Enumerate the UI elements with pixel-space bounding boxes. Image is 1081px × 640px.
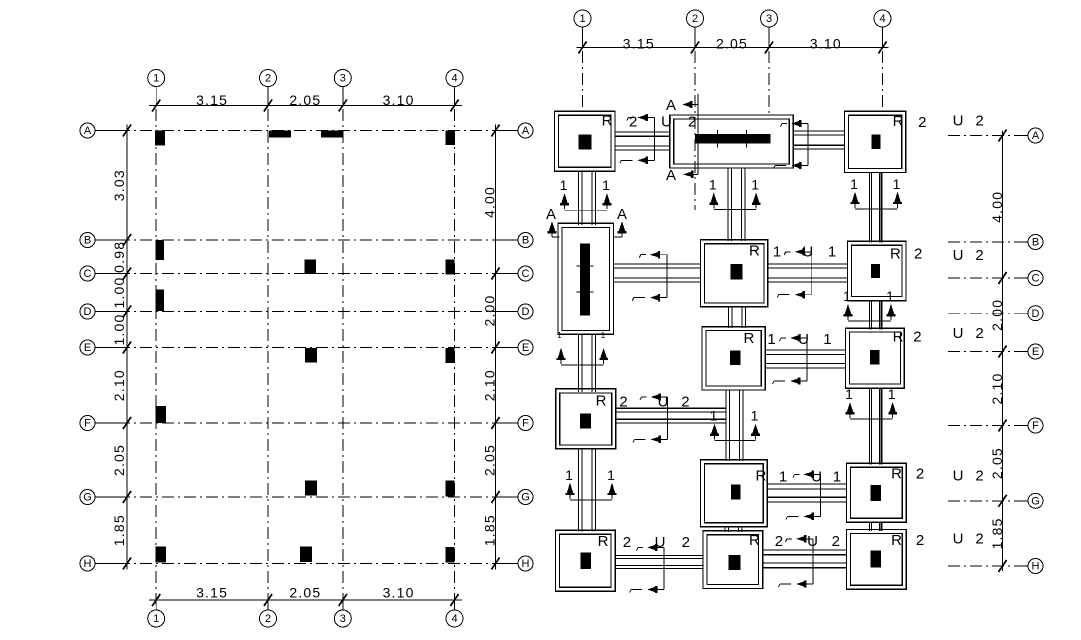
svg-text:A: A — [666, 97, 676, 114]
left plan horizontal grid lines A-H (dash-dot) — [96, 130, 518, 132]
svg-text:2.10: 2.10 — [989, 372, 1005, 404]
svg-text:2.10: 2.10 — [111, 369, 127, 401]
column in F2G — [731, 485, 740, 500]
svg-text:1: 1 — [557, 331, 562, 340]
footing F1BD — [558, 223, 613, 334]
left plan top dimension line — [149, 105, 462, 107]
section 1-1 cut marks on beam — [667, 397, 669, 439]
footing F4H — [847, 530, 907, 590]
tie beam F1BD-F2B row B — [613, 263, 700, 265]
svg-text:A: A — [617, 206, 627, 223]
svg-text:1.85: 1.85 — [482, 514, 498, 546]
svg-text:3.15: 3.15 — [196, 92, 228, 108]
svg-text:2: 2 — [619, 394, 627, 411]
svg-text:3.10: 3.10 — [383, 92, 415, 108]
section 1-1 cut marks on beam — [811, 252, 813, 295]
svg-text:A: A — [84, 125, 92, 137]
svg-text:2: 2 — [975, 325, 983, 342]
svg-text:2: 2 — [265, 613, 271, 625]
column A/3 — [321, 130, 342, 137]
svg-text:U: U — [953, 247, 964, 264]
left plan vertical grid lines 1-4 (dash-dot) — [155, 109, 157, 609]
svg-text:3: 3 — [340, 73, 346, 85]
svg-text:C: C — [522, 268, 530, 280]
svg-text:2: 2 — [832, 533, 840, 550]
svg-text:4: 4 — [451, 73, 457, 85]
tie beam F2B-F4B row B — [768, 263, 848, 265]
footing F4DE — [846, 328, 905, 388]
section 1-1 cut marks on beam — [561, 364, 604, 366]
column in F4A — [872, 135, 881, 150]
svg-text:3.15: 3.15 — [196, 585, 228, 601]
right plan grid bubbles A-H right axis — [948, 135, 1021, 137]
column in F4B — [871, 264, 880, 278]
wall column in FwA — [695, 134, 770, 144]
right plan top dimension line — [577, 47, 889, 49]
svg-text:1: 1 — [893, 176, 901, 192]
tie beam F4DE-F4G — [868, 388, 870, 464]
svg-text:G: G — [83, 492, 92, 504]
svg-text:G: G — [1031, 496, 1040, 508]
tie beam F1F-F1H — [578, 449, 580, 532]
svg-text:D: D — [1032, 308, 1040, 320]
svg-text:4.00: 4.00 — [989, 191, 1005, 223]
svg-text:E: E — [1032, 346, 1039, 358]
svg-text:2: 2 — [975, 468, 983, 485]
svg-text:1: 1 — [828, 244, 836, 261]
column G/4 — [446, 481, 455, 497]
section 1-1 cut marks on beam — [570, 499, 612, 501]
footing F2DE — [702, 327, 765, 390]
svg-text:2: 2 — [623, 534, 631, 551]
footing F2G — [701, 460, 768, 527]
section 1-1 cut marks on beam — [714, 208, 756, 210]
column D/1 — [156, 290, 165, 312]
svg-text:E: E — [84, 342, 91, 354]
section 1-1 cut marks on beam — [806, 338, 808, 381]
footing F1A — [555, 111, 616, 171]
svg-text:1: 1 — [823, 331, 831, 348]
svg-text:2: 2 — [681, 394, 689, 411]
column H/mid — [300, 547, 312, 563]
svg-text:2: 2 — [918, 114, 926, 131]
right plan grid centerlines (dash-dot) — [582, 51, 584, 111]
column A/4 — [446, 130, 456, 145]
svg-text:1.00: 1.00 — [111, 276, 127, 308]
svg-text:3.10: 3.10 — [810, 36, 842, 52]
svg-text:1.00: 1.00 — [111, 313, 127, 345]
svg-text:1: 1 — [579, 13, 585, 25]
svg-text:2: 2 — [913, 329, 921, 346]
section 1-1 cut marks on beam — [807, 124, 809, 166]
tie beam F4G-F4H — [868, 522, 870, 531]
svg-text:1: 1 — [779, 469, 787, 486]
svg-text:4: 4 — [451, 613, 457, 625]
tie beam F4A-F4B — [868, 173, 870, 243]
section 1-1 cut marks on beam — [663, 548, 665, 590]
svg-text:1: 1 — [888, 386, 896, 402]
svg-text:1: 1 — [607, 467, 615, 483]
svg-text:2: 2 — [975, 531, 983, 548]
svg-text:A: A — [522, 125, 530, 137]
svg-text:2: 2 — [688, 114, 696, 131]
section 1-1 cut marks on beam — [812, 539, 814, 584]
svg-text:2: 2 — [914, 246, 922, 263]
svg-text:2.05: 2.05 — [289, 92, 321, 108]
svg-text:R: R — [891, 466, 902, 483]
tie beam F1A-FwA row A — [615, 131, 670, 133]
svg-text:R: R — [743, 330, 754, 347]
svg-text:2: 2 — [629, 114, 637, 131]
column A/2 — [269, 130, 291, 137]
svg-text:R: R — [893, 113, 904, 130]
section 1-1 cut marks on beam — [848, 320, 891, 322]
svg-text:3: 3 — [766, 13, 772, 25]
left plan grid bubbles 1-4 bottom — [155, 600, 157, 610]
svg-text:1: 1 — [153, 73, 159, 85]
svg-text:2.05: 2.05 — [989, 447, 1005, 479]
svg-text:2.05: 2.05 — [289, 585, 321, 601]
right plan grid bubbles 1-4 top — [582, 27, 584, 48]
svg-text:1: 1 — [845, 386, 853, 402]
svg-text:1: 1 — [767, 331, 775, 348]
svg-text:C: C — [1032, 273, 1040, 285]
svg-text:U: U — [953, 468, 964, 485]
svg-text:B: B — [522, 235, 529, 247]
footing F1H — [555, 530, 615, 591]
section 1-1 cut marks on beam — [850, 418, 893, 420]
svg-text:0.98: 0.98 — [111, 241, 127, 273]
footing F4B — [848, 241, 907, 300]
svg-text:D: D — [84, 306, 92, 318]
svg-text:3: 3 — [340, 613, 346, 625]
svg-text:1: 1 — [886, 288, 894, 304]
svg-text:C: C — [84, 268, 92, 280]
svg-text:R: R — [596, 393, 607, 410]
wall column in F1BD — [580, 244, 590, 316]
section 1-1 cut marks on beam — [715, 440, 756, 442]
svg-text:R: R — [602, 113, 613, 130]
svg-text:2: 2 — [682, 534, 690, 551]
svg-text:2: 2 — [775, 533, 783, 550]
tie beam F1F-col2 row F — [616, 407, 726, 409]
column in F4H — [871, 551, 882, 568]
column in F4DE — [870, 350, 879, 365]
tie beam F2G-F2H — [724, 527, 726, 532]
svg-text:R: R — [890, 246, 901, 263]
section 1-1 cut marks on beam — [666, 255, 668, 298]
svg-text:F: F — [84, 418, 91, 430]
svg-text:1: 1 — [565, 467, 573, 483]
column G/mid — [305, 481, 317, 496]
svg-text:D: D — [522, 306, 530, 318]
footing F1F — [556, 389, 616, 449]
svg-text:1: 1 — [751, 408, 759, 424]
svg-text:2.05: 2.05 — [482, 444, 498, 476]
footing FwA — [670, 115, 794, 168]
svg-text:R: R — [893, 329, 904, 346]
svg-text:F: F — [1032, 420, 1039, 432]
column in F1F — [580, 413, 591, 428]
svg-text:4.00: 4.00 — [482, 186, 498, 218]
svg-text:U: U — [661, 114, 672, 131]
tie beam FwA-F2B — [727, 168, 729, 241]
svg-text:2: 2 — [975, 247, 983, 264]
column F/1 — [156, 406, 167, 423]
tie beam F2H-F4H row H — [763, 549, 847, 551]
svg-text:U: U — [953, 531, 964, 548]
tie beam F1A-F1BD — [578, 171, 580, 225]
svg-text:R: R — [749, 532, 760, 549]
svg-text:2.00: 2.00 — [989, 299, 1005, 331]
svg-text:2.10: 2.10 — [482, 369, 498, 401]
svg-text:3.03: 3.03 — [111, 169, 127, 201]
tie beam FwA-F4A row A — [793, 130, 844, 132]
tie beam F2DE-F4DE row D-E — [765, 349, 845, 351]
svg-text:1: 1 — [773, 244, 781, 261]
tie beam F2DE-F2G — [725, 390, 727, 461]
svg-text:2.05: 2.05 — [716, 36, 748, 52]
left plan grid bubbles 1-4 top — [155, 87, 157, 106]
svg-text:2: 2 — [265, 73, 271, 85]
column C/mid — [305, 260, 317, 275]
svg-text:H: H — [522, 558, 530, 570]
svg-text:F: F — [522, 418, 529, 430]
svg-text:A: A — [546, 206, 556, 223]
svg-text:B: B — [84, 235, 91, 247]
left plan left dimension line — [126, 125, 128, 570]
column E/4 — [446, 348, 455, 363]
svg-text:2: 2 — [916, 532, 924, 549]
left plan grid bubbles A-H right — [503, 130, 518, 132]
footing F4A — [845, 111, 906, 172]
svg-text:1: 1 — [850, 176, 858, 192]
svg-text:1: 1 — [751, 176, 759, 192]
section 1-1 cut marks on beam — [820, 474, 822, 516]
svg-text:E: E — [522, 342, 529, 354]
svg-text:3.10: 3.10 — [383, 585, 415, 601]
section 1-1 cut marks on beam — [565, 209, 608, 211]
svg-text:1: 1 — [710, 408, 718, 424]
tie beam F2B-F2DE — [728, 307, 730, 328]
svg-text:2.00: 2.00 — [482, 294, 498, 326]
column H/4 — [446, 547, 455, 563]
svg-text:1: 1 — [601, 331, 606, 340]
column in F2H — [729, 555, 741, 570]
left plan right dimension line — [495, 125, 497, 570]
svg-text:1.85: 1.85 — [989, 517, 1005, 549]
svg-text:U: U — [807, 533, 818, 550]
svg-text:A: A — [666, 167, 676, 184]
svg-text:2: 2 — [916, 466, 924, 483]
footing F4G — [847, 463, 907, 522]
right plan right dimension line — [1002, 131, 1004, 572]
column in F2B — [731, 264, 743, 280]
column in F2DE — [730, 350, 740, 365]
column B/1 — [156, 240, 165, 260]
svg-text:R: R — [891, 532, 902, 549]
column A/1 — [155, 130, 165, 145]
svg-text:R: R — [749, 243, 760, 260]
svg-text:B: B — [1032, 237, 1039, 249]
svg-text:R: R — [755, 468, 766, 485]
svg-text:H: H — [84, 558, 92, 570]
svg-text:1: 1 — [153, 613, 159, 625]
svg-text:4: 4 — [879, 13, 885, 25]
svg-text:G: G — [521, 492, 530, 504]
section A-A cut line at grid 2 — [697, 94, 699, 174]
svg-text:U: U — [953, 113, 964, 130]
column in F1A — [579, 135, 592, 150]
svg-text:2: 2 — [975, 113, 983, 130]
column C/4 — [446, 260, 455, 275]
svg-text:3.15: 3.15 — [623, 36, 655, 52]
svg-text:U: U — [953, 325, 964, 342]
column E/mid — [305, 348, 317, 363]
tie beam F2G-F4G row G — [767, 483, 846, 485]
svg-text:1: 1 — [560, 177, 568, 193]
svg-text:2: 2 — [692, 13, 698, 25]
tie beam F4B-F4DE — [868, 301, 870, 330]
column in F4G — [871, 485, 882, 501]
left plan bottom dimension line — [149, 599, 462, 601]
column H/1 — [156, 547, 167, 563]
svg-text:1: 1 — [602, 177, 610, 193]
section 1-1 cut marks on beam — [855, 208, 898, 210]
tie beam F1BD-F1F — [578, 334, 580, 392]
svg-text:2.05: 2.05 — [111, 444, 127, 476]
section 1-1 cut marks on beam — [653, 118, 655, 161]
svg-text:1: 1 — [709, 176, 717, 192]
svg-text:H: H — [1032, 561, 1040, 573]
svg-text:R: R — [598, 533, 609, 550]
tie beam F1H-F2H row H — [615, 554, 703, 556]
footing F2H — [703, 531, 763, 589]
svg-text:1: 1 — [833, 469, 841, 486]
footing F2B — [701, 240, 768, 307]
svg-text:1: 1 — [843, 288, 851, 304]
svg-text:1.85: 1.85 — [111, 514, 127, 546]
left plan grid bubbles A-H left — [96, 130, 121, 132]
svg-text:A: A — [1032, 130, 1040, 142]
column in F1H — [581, 553, 591, 569]
